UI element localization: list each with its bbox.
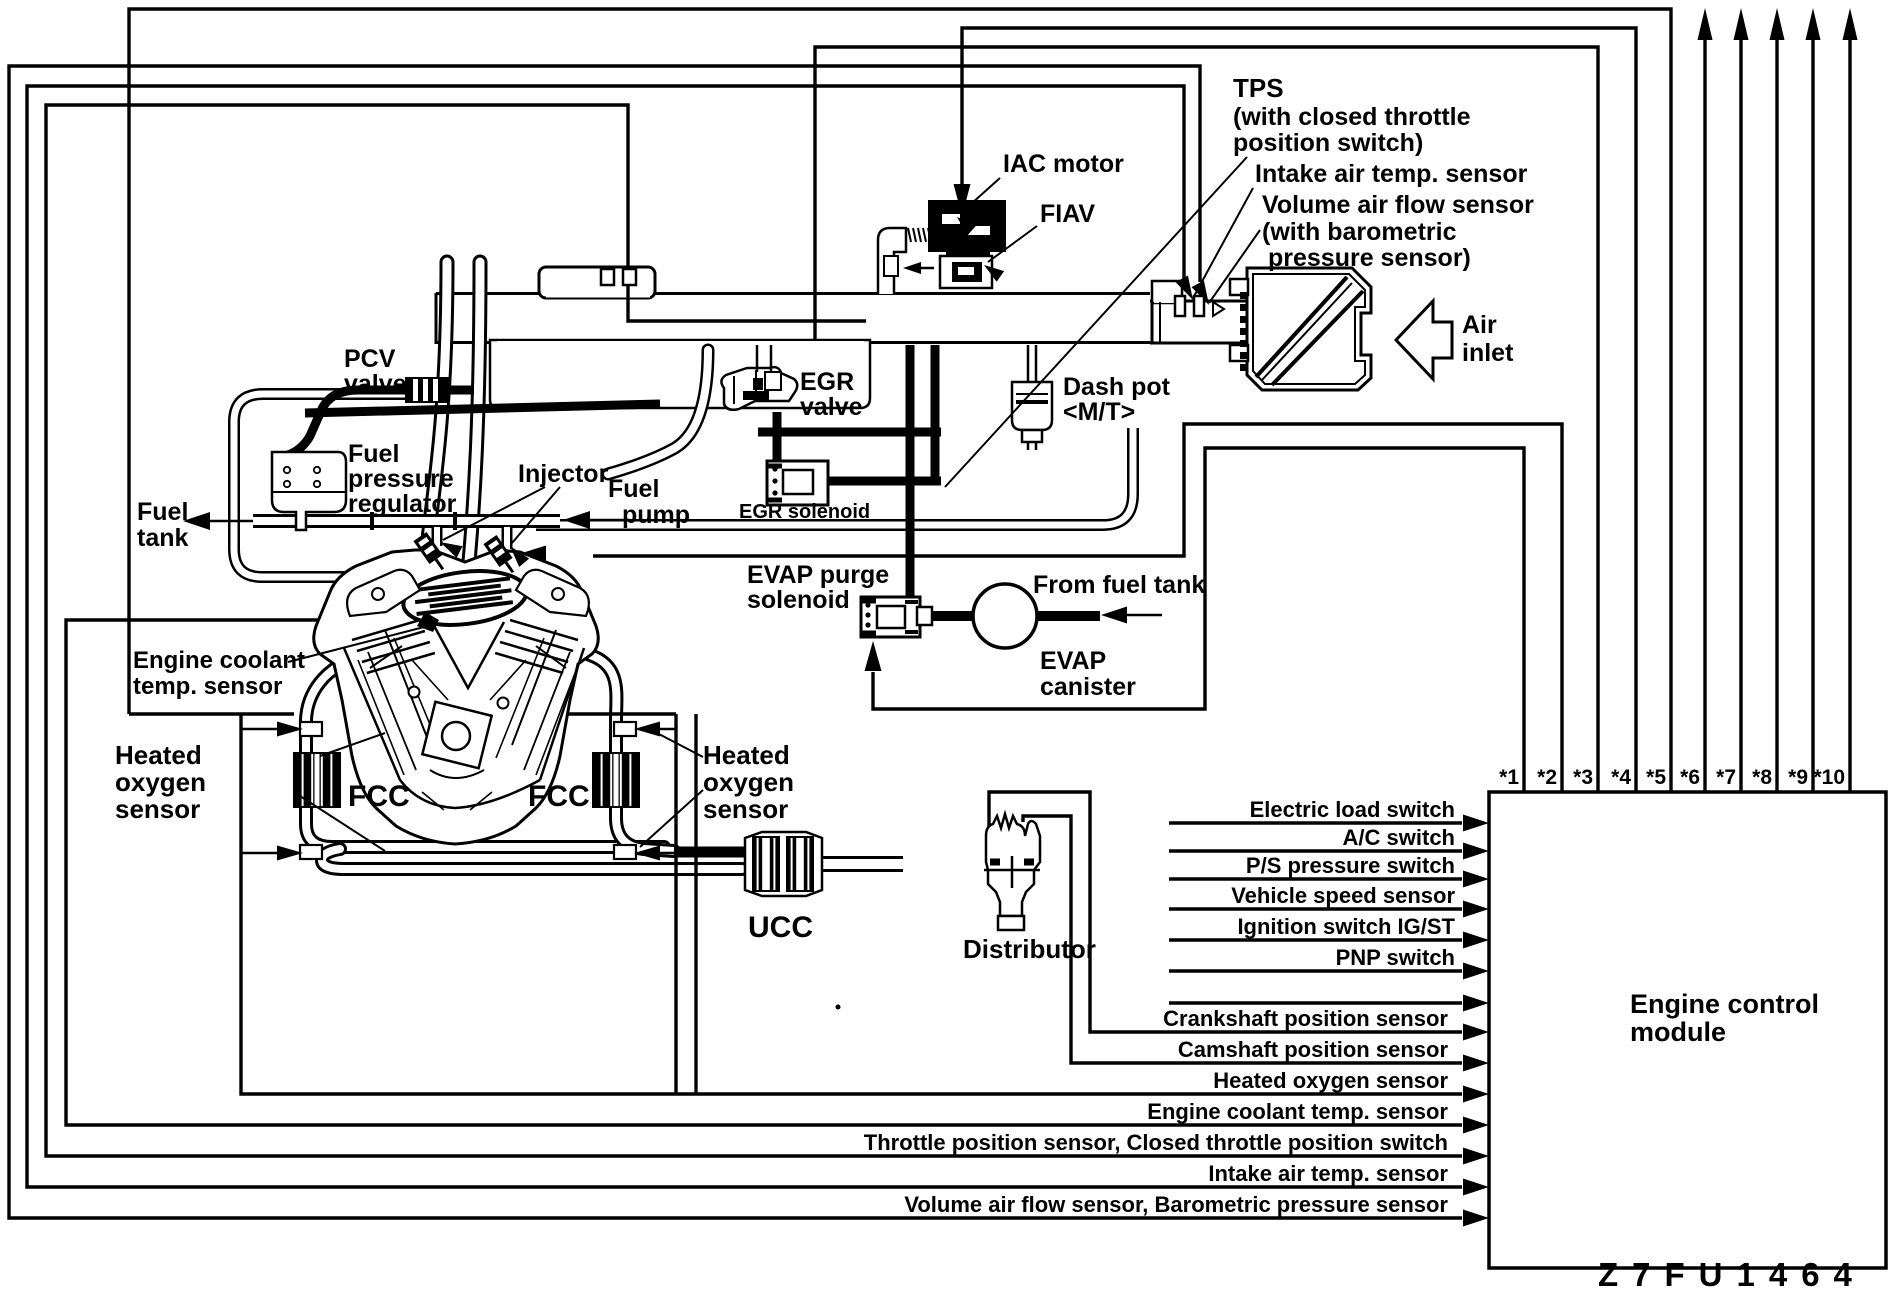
svg-text:Injector: Injector: [518, 460, 609, 488]
svg-text:Engine coolant temp. sensor: Engine coolant temp. sensor: [1147, 1099, 1448, 1124]
svg-text:position switch): position switch): [1233, 129, 1423, 157]
svg-text:Heated oxygen sensor: Heated oxygen sensor: [1213, 1068, 1448, 1093]
svg-text:valve: valve: [344, 370, 407, 398]
svg-text:pump: pump: [622, 501, 690, 529]
svg-text:*3: *3: [1573, 766, 1593, 789]
svg-text:Ignition switch IG/ST: Ignition switch IG/ST: [1237, 914, 1455, 939]
svg-text:PCV: PCV: [344, 345, 396, 373]
svg-text:*10: *10: [1813, 766, 1845, 789]
svg-text:Z7FU1464: Z7FU1464: [1598, 1256, 1866, 1293]
svg-text:TPS: TPS: [1233, 73, 1284, 103]
svg-text:Vehicle speed sensor: Vehicle speed sensor: [1231, 883, 1455, 908]
svg-text:EVAP: EVAP: [1040, 647, 1106, 675]
svg-text:Volume air flow sensor, Barome: Volume air flow sensor, Barometric press…: [904, 1192, 1448, 1217]
svg-text:valve: valve: [800, 393, 863, 421]
svg-text:Fuel: Fuel: [608, 475, 659, 503]
svg-text:<M/T>: <M/T>: [1063, 398, 1135, 426]
svg-text:Heated: Heated: [703, 740, 790, 770]
svg-text:*4: *4: [1611, 766, 1631, 789]
svg-text:FCC: FCC: [528, 780, 590, 813]
svg-text:Engine control: Engine control: [1630, 989, 1819, 1019]
svg-text:EVAP purge: EVAP purge: [747, 561, 889, 589]
svg-text:sensor: sensor: [703, 794, 788, 824]
svg-text:From fuel tank: From fuel tank: [1033, 571, 1205, 599]
svg-text:*8: *8: [1752, 766, 1772, 789]
svg-text:*7: *7: [1716, 766, 1736, 789]
svg-text:module: module: [1630, 1017, 1726, 1047]
svg-text:Heated: Heated: [115, 740, 202, 770]
svg-text:EGR solenoid: EGR solenoid: [739, 501, 870, 523]
svg-text:PNP switch: PNP switch: [1336, 945, 1455, 970]
svg-text:tank: tank: [137, 524, 189, 552]
svg-text:temp. sensor: temp. sensor: [133, 673, 282, 700]
svg-text:pressure sensor): pressure sensor): [1268, 244, 1471, 272]
svg-text:Volume air flow sensor: Volume air flow sensor: [1262, 191, 1534, 219]
svg-text:*2: *2: [1537, 766, 1557, 789]
svg-text:regulator: regulator: [348, 490, 457, 518]
svg-text:oxygen: oxygen: [703, 767, 794, 797]
svg-text:Intake air temp. sensor: Intake air temp. sensor: [1208, 1161, 1448, 1186]
svg-text:UCC: UCC: [748, 911, 813, 944]
svg-text:canister: canister: [1040, 673, 1136, 701]
svg-text:Intake air temp. sensor: Intake air temp. sensor: [1255, 160, 1528, 188]
svg-text:inlet: inlet: [1462, 339, 1514, 367]
svg-text:*9: *9: [1788, 766, 1808, 789]
svg-text:sensor: sensor: [115, 794, 200, 824]
svg-text:Camshaft position sensor: Camshaft position sensor: [1178, 1037, 1449, 1062]
svg-text:(with barometric: (with barometric: [1262, 218, 1457, 246]
svg-text:EGR: EGR: [800, 368, 854, 396]
svg-text:Throttle position sensor, Clos: Throttle position sensor, Closed throttl…: [864, 1130, 1448, 1155]
svg-text:*5: *5: [1646, 766, 1666, 789]
svg-text:FIAV: FIAV: [1040, 200, 1095, 228]
svg-text:IAC motor: IAC motor: [1003, 150, 1124, 178]
svg-text:oxygen: oxygen: [115, 767, 206, 797]
svg-text:FCC: FCC: [348, 780, 410, 813]
svg-text:*6: *6: [1680, 766, 1700, 789]
svg-text:A/C switch: A/C switch: [1343, 825, 1455, 850]
svg-text:pressure: pressure: [348, 465, 454, 493]
svg-text:Engine coolant: Engine coolant: [133, 647, 305, 674]
svg-text:solenoid: solenoid: [747, 586, 850, 614]
svg-text:Air: Air: [1462, 311, 1497, 339]
svg-text:Fuel: Fuel: [348, 440, 399, 468]
svg-text:P/S pressure switch: P/S pressure switch: [1246, 853, 1455, 878]
svg-text:*1: *1: [1499, 766, 1519, 789]
svg-text:Fuel: Fuel: [137, 498, 188, 526]
svg-text:Crankshaft position sensor: Crankshaft position sensor: [1163, 1006, 1448, 1031]
svg-text:Distributor: Distributor: [963, 934, 1096, 964]
svg-text:Dash pot: Dash pot: [1063, 373, 1171, 401]
svg-text:(with closed throttle: (with closed throttle: [1233, 103, 1471, 131]
svg-text:Electric load switch: Electric load switch: [1250, 797, 1455, 822]
